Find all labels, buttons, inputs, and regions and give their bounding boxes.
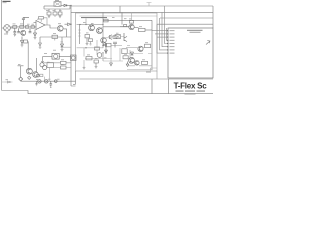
small box B0 (40, 74, 43, 76)
frame vertical x75.5 lower stub (73, 71, 76, 84)
ground G4 (21, 44, 24, 48)
pin 5 wire (165, 6, 169, 44)
lower-left cluster: diode D3 (21, 37, 24, 44)
wire y69.5 (127, 69, 152, 71)
ground G1 (59, 15, 61, 18)
circle P0 (36, 74, 39, 77)
ground G7 (83, 67, 86, 70)
resistor R4 (20, 26, 24, 29)
wire y45.5 (111, 45, 130, 47)
resistor R20 (86, 57, 92, 60)
bus wire 4 (157, 23, 213, 25)
connector circle P1 (38, 80, 41, 83)
wire y53 (128, 53, 152, 55)
transistor Q12 (135, 61, 140, 66)
diode D10 (110, 62, 113, 66)
vertical x103 (102, 12, 104, 61)
ground G4b (39, 46, 42, 48)
wire y36.5 (108, 36, 124, 38)
sheet left border (1, 0, 3, 91)
wire bottom row (21, 80, 76, 82)
op-amp output wire (45, 25, 57, 28)
IC U10 box (168, 28, 213, 78)
pin 4 wire (167, 28, 169, 40)
hanging cap C5 (50, 81, 53, 86)
bus wire 2 (71, 11, 213, 13)
wire y61 (103, 60, 123, 62)
transistor Q9 (124, 33, 127, 42)
cap C4 drop (29, 28, 32, 33)
wire R25 right (145, 29, 152, 31)
vertical x122 (120, 6, 122, 25)
transistor Q3 (40, 63, 44, 67)
wire y26.5 (120, 26, 131, 28)
pin 6 wire (162, 12, 168, 46)
bus wire 1 (71, 5, 213, 7)
transistor Q7b (103, 43, 107, 47)
resistor R5 (25, 26, 28, 29)
wire R11 to vertical (27, 41, 30, 43)
diode D7 (131, 52, 134, 55)
resistor R18 (105, 43, 111, 47)
small diode D5 bottom-left (5, 81, 10, 83)
sub-circuit mid rail (44, 5, 70, 9)
resistor R21 (94, 60, 98, 63)
Q2 label speck (58, 22, 61, 25)
resistor R11 (24, 40, 28, 43)
pin 1 wire (152, 30, 168, 32)
stub tick (147, 3, 152, 7)
resistor R26 (142, 61, 148, 64)
pin 2 wire (155, 33, 168, 35)
sub-circuit verticals (49, 9, 60, 12)
ground under J1 (6, 31, 8, 33)
title strip top line (80, 78, 214, 80)
resistor B5 (89, 39, 93, 42)
resistor R23 (129, 21, 133, 24)
ground G6 (35, 81, 38, 86)
feedback resistor R10 (39, 17, 44, 19)
label speck (146, 71, 151, 74)
pin 7 wire (160, 18, 169, 50)
ground G1b (48, 15, 50, 18)
resistor R25 (139, 28, 146, 31)
pin 8 wire (157, 24, 168, 53)
ground G5 (61, 47, 64, 52)
vertical x120 (119, 48, 121, 61)
vertical x40 with diode D3b (39, 37, 42, 46)
transistor Q4 (43, 65, 47, 69)
junction dots row y24.5 (79, 24, 80, 25)
transistor Q5b (33, 72, 39, 78)
wire y37.8 (105, 37, 112, 39)
transistor Q7c (101, 38, 107, 44)
bus right vertical (212, 6, 214, 28)
title small text line 2 (185, 93, 196, 94)
connector circle P3 (55, 80, 58, 83)
stub below middle box (156, 71, 158, 79)
svg-text:T-Flex Sc: T-Flex Sc (174, 81, 208, 90)
ground G2 (14, 34, 17, 36)
vertical+ground under R16 (86, 38, 89, 46)
wire row y47.8 left (77, 47, 104, 49)
transistor arrow QA (110, 35, 113, 40)
corner bracket (151, 68, 158, 71)
resistor R6 (31, 26, 34, 29)
op-amp U1 (36, 21, 45, 30)
resistor R22 on y20.3 (103, 19, 108, 22)
diode D2 below opamp (34, 30, 37, 37)
transistor Q6 (89, 25, 95, 31)
crystal Y1 (52, 53, 59, 59)
transistor Q11 (129, 57, 135, 63)
pin labels (170, 30, 175, 53)
wire from K1 left (44, 5, 54, 7)
sheet bottom border step (2, 91, 213, 94)
top sub-circuit: component K1 box (54, 2, 61, 7)
transistor Q10 (138, 46, 143, 51)
small box on y26.5 (124, 25, 127, 27)
frame vertical x71 (71, 6, 76, 86)
pin fanout wires (152, 6, 168, 53)
title small text line 1 (176, 90, 184, 91)
title block divider 2 (168, 79, 170, 94)
resistor R13 (47, 63, 54, 68)
vertical x36.5 (36, 58, 38, 72)
ticks on x79.5 (78, 30, 80, 36)
connector box on middle box left edge (71, 55, 77, 61)
diamond DD2 below Q5a (28, 76, 31, 79)
cluster wires y62.8/y67.5 (43, 63, 71, 68)
connector circle P2 (45, 80, 48, 83)
ground G3 (34, 36, 37, 40)
resistor R12 on row (52, 35, 58, 38)
diode D11 into frame (65, 23, 71, 26)
pin dots (167, 30, 168, 53)
wire Q8 right (134, 27, 138, 29)
wire y65.8 (127, 65, 152, 67)
connector J1 circle (4, 25, 11, 32)
resistor R19 (145, 44, 151, 48)
junction drop x62 (61, 37, 63, 44)
diode D1 (64, 4, 67, 6)
cap C1 stub (54, 15, 56, 17)
column x106 lower (105, 47, 107, 54)
chain row wire (10, 26, 36, 28)
resistor R28 (122, 49, 127, 54)
wire row y37 (40, 36, 71, 38)
resistor R14 (61, 61, 67, 64)
resistor R2b (58, 12, 62, 15)
wire after D1 (61, 4, 71, 6)
vertical x86 from label (85, 18, 87, 24)
resistor R24 (123, 56, 128, 59)
diode D6 (105, 50, 108, 53)
mid row wire y24.5 (77, 24, 104, 26)
cap C3 drop (17, 28, 20, 33)
vertical to Q8 (131, 12, 133, 24)
IC no-connect squiggle (206, 41, 210, 45)
transistor Q1 (21, 30, 26, 35)
middle sub-board box (76, 13, 158, 71)
vertical x96 ground (95, 63, 98, 68)
resistor R2 (53, 12, 57, 15)
capacitor C6 above chain (22, 17, 29, 25)
cap C2 drop (13, 28, 16, 34)
opto box B6 (115, 35, 121, 39)
vertical x42.7 (42, 56, 44, 62)
junction dot on x71 (70, 5, 72, 7)
vertical x84 (83, 48, 85, 67)
K1 label (55, 0, 59, 2)
resistor R3 (13, 26, 17, 29)
resistor R15 (61, 66, 67, 69)
mid wire y26.8 (103, 26, 129, 28)
vertical x79.5 (79, 25, 81, 45)
component ref label specks (6, 10, 149, 80)
vertical x152 (151, 20, 153, 70)
diode D8 (126, 62, 129, 67)
vertical x111 (110, 46, 112, 63)
vertical x97 with box (96, 40, 98, 55)
transistor Q8 (129, 24, 134, 29)
transistor Q5a (27, 68, 33, 74)
bottom cluster wire y58 (85, 58, 112, 60)
wire Q2 to frame (63, 29, 66, 37)
middle board label text (81, 17, 107, 18)
IC label text (187, 30, 203, 31)
diode diamond DD1 (19, 77, 23, 81)
wire row y56.4 (43, 55, 71, 57)
wire row y47 (62, 46, 71, 48)
pin 3 wire (157, 36, 168, 38)
sheet name text top-left (3, 1, 11, 2)
diode D4 (61, 44, 64, 47)
net T-bar (18, 66, 24, 77)
wire y20.3 (103, 19, 152, 21)
cap C7 (113, 42, 117, 47)
resistor R27 (95, 47, 100, 50)
resistor R1 (47, 12, 51, 15)
J1 bottom label (4, 33, 8, 36)
vertical x28.2 (27, 42, 29, 70)
small box B2 (113, 36, 117, 39)
resistor R16 (85, 35, 90, 38)
transistor Q7 (97, 28, 103, 34)
title block divider 1 (151, 79, 153, 94)
middle box inner top line (80, 15, 158, 17)
bus wire 3 (160, 17, 213, 19)
transistor Q2 (58, 26, 64, 32)
wire y47.7 (126, 47, 145, 49)
transistor Q13 (97, 53, 102, 58)
